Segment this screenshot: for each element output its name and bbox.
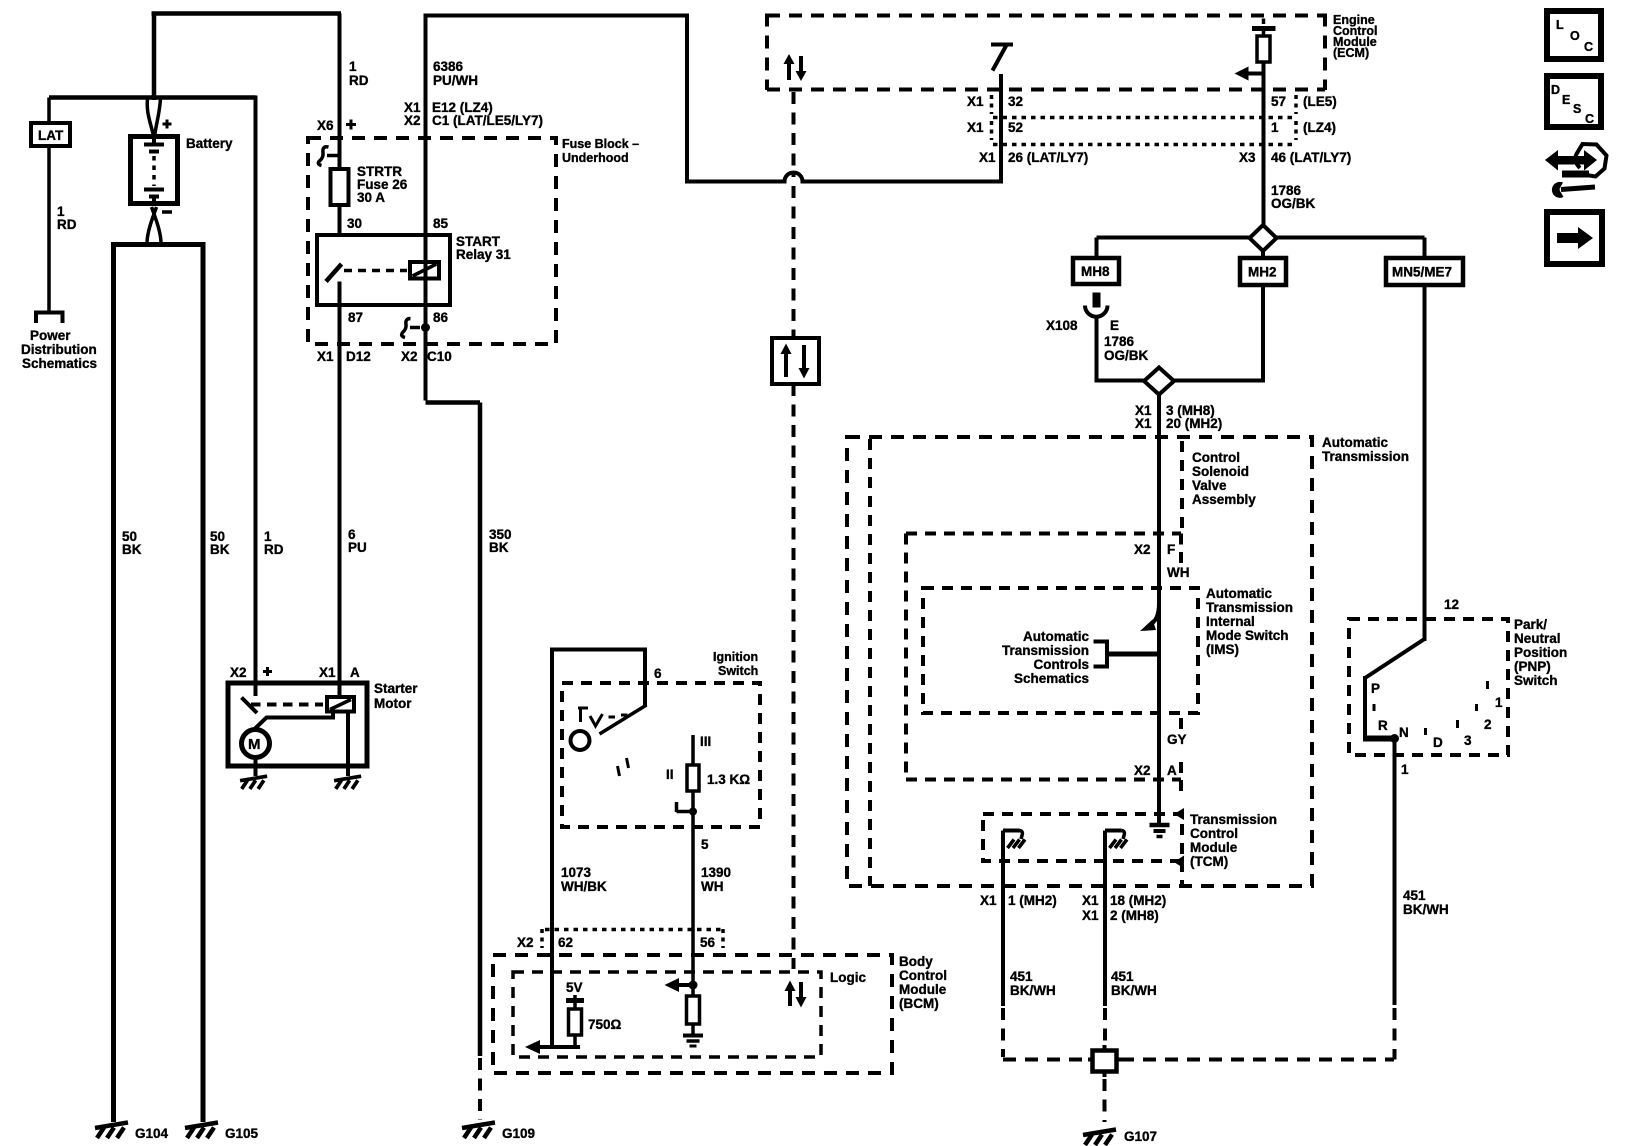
svg-text:WH: WH: [701, 879, 724, 894]
clip symbol at X6: [318, 147, 340, 166]
svg-text:GY: GY: [1167, 732, 1187, 747]
svg-text:X2: X2: [1134, 763, 1151, 778]
svg-text:30 A: 30 A: [357, 190, 385, 205]
wire 451 BK/WH from PNP: [1393, 741, 1397, 1005]
svg-text:2 (MH8): 2 (MH8): [1110, 908, 1159, 923]
svg-text:1390: 1390: [701, 865, 731, 880]
wire: battery negative bar: [111, 242, 206, 247]
wire ignition switch feed (1073 WH/BK): [550, 650, 647, 1048]
PNP tick 2-1: [1486, 681, 1489, 689]
wire splice bus y=237: [1097, 238, 1425, 259]
wire 350 BK dashed to G109: [478, 1058, 482, 1120]
svg-text:X2: X2: [1134, 542, 1151, 557]
TCM earth ground (IMS return): [1150, 823, 1170, 828]
svg-text:57: 57: [1271, 94, 1286, 109]
svg-text:X1: X1: [319, 665, 336, 680]
PNP tick 3-2: [1475, 704, 1478, 711]
ignition key position marks: [578, 708, 628, 726]
svg-text:PU/WH: PU/WH: [433, 73, 478, 88]
svg-text:WH: WH: [1167, 565, 1190, 580]
wire motor to ground: [254, 758, 258, 777]
svg-text:II: II: [666, 767, 674, 782]
svg-text:Ignition: Ignition: [713, 650, 758, 664]
svg-text:86: 86: [433, 310, 449, 325]
off-page connector: Power Distribution: [36, 313, 63, 324]
svg-text:6386: 6386: [433, 59, 464, 74]
svg-text:1073: 1073: [561, 865, 592, 880]
svg-text:Valve: Valve: [1192, 478, 1227, 493]
connector X2 dashed box: [906, 534, 1181, 793]
svg-text:X1: X1: [980, 893, 997, 908]
ground G104: [95, 1123, 128, 1139]
svg-text:46 (LAT/LY7): 46 (LAT/LY7): [1271, 150, 1351, 165]
IMS wiper arrow: [1148, 603, 1159, 627]
wire 451 BK/WH (TCM left): [1001, 886, 1005, 1006]
svg-text:Switch: Switch: [718, 664, 758, 678]
svg-text:C: C: [1585, 112, 1594, 126]
svg-text:Automatic: Automatic: [1023, 629, 1089, 644]
svg-text:N: N: [1399, 725, 1409, 740]
svg-text:X1: X1: [979, 150, 996, 165]
BCM 56 input arrow: [677, 983, 693, 987]
label + (battery): [163, 120, 172, 129]
ECM variant edge (LE5/LZ4): [993, 116, 1293, 120]
ignition switch dashed box: [562, 683, 760, 827]
svg-text:G104: G104: [135, 1126, 169, 1141]
ignition position ticks: [618, 758, 629, 776]
battery: [131, 137, 178, 204]
svg-text:Battery: Battery: [186, 136, 233, 151]
svg-text:Motor: Motor: [374, 696, 412, 711]
svg-text:OG/BK: OG/BK: [1104, 348, 1149, 363]
svg-text:Transmission: Transmission: [1190, 812, 1277, 827]
ground G109: [462, 1123, 495, 1139]
TCM chassis ground clip right: [1105, 831, 1122, 887]
wire MH2 to splice: [1174, 285, 1263, 383]
svg-text:PU: PU: [348, 540, 367, 555]
svg-text:Assembly: Assembly: [1192, 492, 1256, 507]
svg-text:BK: BK: [489, 540, 509, 555]
ignition switch contact arm: [643, 648, 647, 707]
wire 1 RD to starter motor +: [254, 96, 258, 685]
splice funnel at battery negative: [147, 207, 161, 242]
BCM dashed box: [493, 955, 892, 1073]
svg-text:26 (LAT/LY7): 26 (LAT/LY7): [1008, 150, 1088, 165]
svg-text:X108: X108: [1046, 318, 1078, 333]
starter motor box: [228, 683, 367, 766]
connector X108 inline: [1093, 293, 1101, 308]
svg-text:F: F: [1167, 542, 1175, 557]
svg-text:Controls: Controls: [1034, 657, 1090, 672]
wire: 1 RD drop to fuse block X6: [338, 14, 342, 241]
BCM earth ground: [683, 1034, 703, 1038]
splice box S (G107): [1093, 1051, 1117, 1072]
svg-text:451: 451: [1010, 969, 1033, 984]
relay START Relay 31: [317, 235, 450, 305]
BCM connector X2 dotted edge: [545, 928, 723, 932]
ECM logic arrows: [789, 56, 801, 80]
svg-text:Transmission: Transmission: [1322, 449, 1409, 464]
svg-text:Automatic: Automatic: [1322, 435, 1388, 450]
ground G105: [185, 1123, 218, 1139]
wire bus to ECM crank signal: [424, 14, 690, 18]
connector box MH2: [1240, 258, 1286, 285]
BCM crank request input arrow: [538, 1045, 580, 1049]
svg-text:X2: X2: [517, 935, 534, 950]
svg-text:Mode Switch: Mode Switch: [1206, 628, 1289, 643]
svg-text:III: III: [700, 734, 711, 749]
svg-text:O: O: [1570, 29, 1580, 43]
svg-text:P: P: [1371, 681, 1380, 696]
svg-text:1 (MH2): 1 (MH2): [1008, 893, 1057, 908]
svg-text:X2: X2: [230, 665, 247, 680]
BCM logic arrows: [790, 982, 801, 1006]
IMS dashed box: [923, 588, 1198, 713]
wire relay 87 to starter solenoid (6 PU): [338, 282, 342, 700]
wire 350 BK jog: [426, 400, 481, 405]
svg-text:1786: 1786: [1104, 334, 1135, 349]
svg-text:Module: Module: [899, 982, 947, 997]
splice diamond (1786 OG/BK): [1250, 225, 1277, 251]
fuse block underhood dashed box: [308, 138, 556, 344]
svg-text:RD: RD: [57, 217, 77, 232]
icon wrench/arrows: [1575, 144, 1606, 177]
svg-text:OG/BK: OG/BK: [1271, 196, 1316, 211]
svg-text:Transmission: Transmission: [1002, 643, 1089, 658]
wire 1390 WH: [691, 812, 695, 986]
starter motor M: [242, 730, 270, 758]
svg-text:Position: Position: [1514, 645, 1567, 660]
svg-text:Relay 31: Relay 31: [456, 247, 511, 262]
svg-text:12: 12: [1444, 597, 1459, 612]
PNP tick D-3: [1456, 720, 1459, 728]
BCM pull-down resistor: [691, 985, 695, 1034]
svg-text:X1: X1: [1135, 416, 1152, 431]
BCM resistor 750 ohm: [569, 1009, 582, 1035]
PNP switch dashed box: [1349, 619, 1508, 755]
svg-text:A: A: [1167, 763, 1177, 778]
svg-text:5V: 5V: [566, 980, 583, 995]
ECM dashed box: [767, 14, 1325, 91]
svg-text:E: E: [1110, 318, 1119, 333]
icon forward arrow: [1547, 212, 1602, 264]
ground (starter motor): [240, 776, 267, 789]
svg-text:Distribution: Distribution: [21, 342, 97, 357]
clip symbol at 86 with junction: [402, 319, 420, 338]
svg-text:BK/WH: BK/WH: [1403, 902, 1449, 917]
svg-text:2: 2: [1484, 717, 1492, 732]
svg-text:(PNP): (PNP): [1514, 659, 1551, 674]
svg-text:1: 1: [1495, 695, 1503, 710]
svg-text:RD: RD: [264, 542, 284, 557]
connector box MH8: [1073, 258, 1119, 284]
svg-text:R: R: [1378, 718, 1388, 733]
svg-text:MH2: MH2: [1248, 265, 1277, 280]
wire: battery distribution bus y=95: [49, 95, 256, 100]
ground G107: [1083, 1130, 1116, 1146]
svg-text:18 (MH2): 18 (MH2): [1110, 893, 1166, 908]
starter solenoid coil: [327, 697, 354, 712]
svg-text:(IMS): (IMS): [1206, 642, 1239, 657]
connector box MN5/ME7: [1386, 258, 1463, 285]
svg-text:Control: Control: [899, 968, 947, 983]
svg-text:Solenoid: Solenoid: [1192, 464, 1249, 479]
svg-text:D: D: [1551, 83, 1560, 97]
wire 6386 PU/WH relay 85 coil to C10: [424, 14, 428, 401]
svg-text:6: 6: [654, 666, 662, 681]
svg-text:(LE5): (LE5): [1303, 94, 1337, 109]
label - (battery): [162, 210, 172, 214]
ground (starter solenoid): [334, 776, 361, 789]
automatic transmission dashed box: [847, 437, 1312, 886]
ignition resistor 1.3 K: [691, 735, 695, 812]
svg-text:D: D: [1433, 735, 1443, 750]
svg-text:MH8: MH8: [1081, 264, 1110, 279]
splice funnel at battery positive: [147, 97, 160, 134]
ECM crank switch lever: [991, 45, 1013, 71]
fuse STRTR Fuse 26 30 A: [331, 169, 349, 205]
svg-text:A: A: [350, 665, 360, 680]
svg-text:85: 85: [433, 216, 449, 231]
svg-text:BK: BK: [210, 542, 230, 557]
wire y=181 with hop over dashed: [685, 173, 1003, 182]
svg-text:X3: X3: [1239, 150, 1256, 165]
svg-text:5: 5: [701, 837, 709, 852]
wire: battery positive vertical: [152, 14, 157, 101]
svg-text:G107: G107: [1124, 1129, 1157, 1144]
svg-text:52: 52: [1008, 120, 1023, 135]
control solenoid valve assembly dashed edges: [870, 439, 1182, 886]
relay coil: [410, 262, 439, 279]
svg-text:(LZ4): (LZ4): [1303, 120, 1336, 135]
wire splice to IMS (X1 3/20): [1157, 395, 1161, 825]
wire 50 BK left to G104: [111, 247, 116, 1122]
PNP tick P-R: [1373, 704, 1376, 711]
svg-text:X1: X1: [1082, 893, 1099, 908]
svg-text:X1: X1: [967, 120, 984, 135]
svg-text:Module: Module: [1190, 840, 1238, 855]
icon DESC: [1547, 76, 1601, 127]
wire solenoid to motor: [255, 712, 336, 730]
svg-text:451: 451: [1111, 969, 1134, 984]
svg-text:20 (MH2): 20 (MH2): [1166, 416, 1222, 431]
svg-text:L: L: [1556, 18, 1564, 32]
svg-text:62: 62: [558, 935, 573, 950]
PNP tick N-D: [1424, 728, 1427, 735]
wire MN5/ME7 to PNP switch: [1423, 285, 1427, 641]
svg-text:M: M: [248, 736, 261, 753]
svg-text:Park/: Park/: [1514, 617, 1547, 632]
svg-text:Underhood: Underhood: [562, 151, 629, 165]
svg-text:BK/WH: BK/WH: [1111, 983, 1157, 998]
reference bracket: [1094, 642, 1108, 667]
svg-text:C: C: [1584, 40, 1593, 54]
svg-text:C1 (LAT/LE5/LY7): C1 (LAT/LE5/LY7): [432, 113, 543, 128]
ignition lock cylinder: [571, 731, 590, 750]
svg-text:S: S: [1573, 102, 1581, 116]
relay dashed link: [344, 269, 407, 273]
svg-text:X1: X1: [317, 349, 334, 364]
wire 1786 OG/BK from ECM: [1262, 62, 1266, 226]
svg-text:G109: G109: [502, 1126, 535, 1141]
svg-text:Automatic: Automatic: [1206, 586, 1272, 601]
svg-text:1.3 KΩ: 1.3 KΩ: [707, 772, 750, 787]
svg-text:Power: Power: [30, 328, 71, 343]
TCM chassis ground clip left: [1003, 831, 1020, 887]
svg-text:Schematics: Schematics: [1014, 671, 1089, 686]
wire dashed to G107: [1103, 1079, 1107, 1122]
svg-text:750Ω: 750Ω: [588, 1017, 622, 1032]
svg-text:MN5/ME7: MN5/ME7: [1392, 265, 1452, 280]
svg-text:Schematics: Schematics: [22, 356, 97, 371]
ignition crank contact: [677, 802, 694, 812]
wire X108 to splice: [1097, 315, 1145, 383]
svg-text:Logic: Logic: [830, 970, 866, 985]
svg-text:32: 32: [1008, 94, 1023, 109]
TCM dashed box: [983, 814, 1182, 861]
svg-text:RD: RD: [349, 73, 369, 88]
splice diamond (MH8/MH2 join): [1144, 368, 1174, 395]
component LAT: [31, 123, 70, 146]
wire 350 BK down: [478, 403, 483, 1057]
svg-text:X2: X2: [404, 113, 421, 128]
svg-text:1: 1: [1271, 120, 1279, 135]
icon LOC: [1547, 11, 1601, 59]
serial data box with arrows: [772, 338, 819, 384]
svg-text:E: E: [1562, 93, 1570, 107]
svg-text:X6: X6: [317, 118, 334, 133]
svg-text:X1: X1: [1082, 908, 1099, 923]
svg-text:Neutral: Neutral: [1514, 631, 1561, 646]
ECM internal resistor: [1262, 19, 1266, 25]
starter dashed link: [251, 703, 323, 707]
relay switch blade: [326, 264, 342, 282]
svg-text:56: 56: [700, 935, 716, 950]
svg-text:WH/BK: WH/BK: [561, 879, 607, 894]
svg-text:87: 87: [348, 310, 363, 325]
svg-text:(ECM): (ECM): [1333, 46, 1369, 60]
wire: LAT branch down: [47, 98, 51, 312]
PNP switch lever and contact: [1365, 639, 1425, 739]
svg-text:Starter: Starter: [374, 681, 418, 696]
svg-text:1: 1: [349, 59, 357, 74]
ECM internal arrow: [1247, 72, 1264, 76]
wire 451 BK/WH (TCM right): [1103, 886, 1107, 1006]
svg-text:LAT: LAT: [38, 128, 64, 143]
wire: battery positive top bus: [152, 11, 342, 16]
starter switch blade: [242, 683, 258, 713]
svg-text:3: 3: [1464, 733, 1472, 748]
svg-text:G105: G105: [225, 1126, 259, 1141]
svg-text:X1: X1: [967, 94, 984, 109]
svg-text:Transmission: Transmission: [1206, 600, 1293, 615]
svg-text:(BCM): (BCM): [899, 996, 939, 1011]
svg-text:BK/WH: BK/WH: [1010, 983, 1056, 998]
svg-text:Internal: Internal: [1206, 614, 1255, 629]
svg-text:Fuse Block –: Fuse Block –: [562, 137, 639, 151]
svg-text:D12: D12: [346, 349, 371, 364]
svg-text:Control: Control: [1192, 450, 1240, 465]
wire 50 BK right to G105: [201, 247, 206, 1122]
wire solenoid to ground: [346, 712, 350, 777]
ground bus dashed to G107: [1003, 1058, 1394, 1062]
BCM logic dashed box: [513, 972, 821, 1057]
svg-text:1: 1: [1401, 762, 1409, 777]
svg-text:Body: Body: [899, 954, 933, 969]
svg-text:(TCM): (TCM): [1190, 854, 1228, 869]
svg-text:X2: X2: [401, 349, 418, 364]
svg-text:C10: C10: [427, 349, 452, 364]
svg-text:451: 451: [1403, 888, 1426, 903]
svg-text:Control: Control: [1190, 826, 1238, 841]
svg-text:Switch: Switch: [1514, 673, 1558, 688]
wire dashed ECM to BCM serial data: [792, 92, 796, 969]
ECM variant edge (LZ4/LAT): [993, 143, 1293, 147]
svg-text:30: 30: [347, 216, 362, 231]
svg-text:BK: BK: [122, 542, 142, 557]
